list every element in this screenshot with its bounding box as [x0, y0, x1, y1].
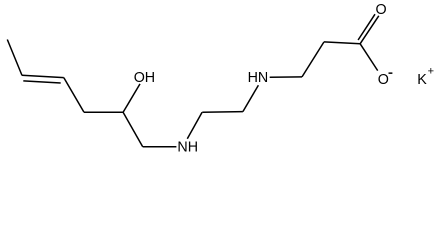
bond C6-C5 (terminal methyl): [7, 40, 22, 76]
svg-text:O: O: [378, 72, 389, 88]
bond C2-OH: [123, 84, 140, 112]
bond C4-C3: [64, 78, 84, 113]
bond C5=C4 second line: [23, 81, 60, 83]
bond C5=C4 main line: [22, 75, 64, 77]
bond C1''-O(-): [360, 44, 378, 71]
svg-text:O: O: [376, 2, 387, 18]
superscript minus charge on carboxylate O: [389, 72, 393, 74]
bond N2-C3'': [270, 76, 302, 78]
svg-text:+: +: [428, 66, 434, 78]
bond C2-C1: [123, 112, 143, 146]
svg-text:OH: OH: [134, 70, 155, 86]
svg-text:HN: HN: [248, 70, 269, 86]
bond C3''-C2'': [302, 42, 324, 77]
bond C1''=O second line: [358, 14, 375, 40]
svg-text:K: K: [417, 72, 427, 88]
bond C3-C2: [84, 111, 123, 113]
bond C1''=O main line: [360, 16, 379, 44]
bond C1-N1: [143, 146, 177, 148]
bond C1'-C2' (ethylene bridge): [202, 111, 243, 114]
bond C2'-N2: [243, 85, 259, 111]
bond C2''-C1'' (carboxyl carbon): [324, 42, 360, 44]
bond N1-C1' (ethylene bridge): [187, 112, 202, 139]
svg-text:NH: NH: [177, 140, 198, 156]
